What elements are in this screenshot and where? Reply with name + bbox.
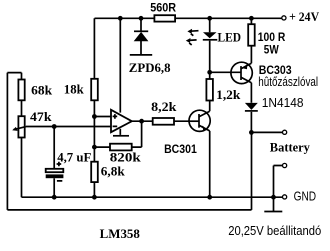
svg-text:1N4148: 1N4148 — [262, 95, 304, 110]
svg-text:6,8k: 6,8k — [101, 163, 126, 178]
svg-text:20,25V beállitandó: 20,25V beállitandó — [228, 223, 321, 238]
svg-text:1,2k: 1,2k — [216, 87, 241, 102]
svg-text:8,2k: 8,2k — [151, 99, 177, 114]
svg-text:ZPD6,8: ZPD6,8 — [129, 60, 171, 75]
svg-text:LM358: LM358 — [100, 226, 141, 241]
svg-text:820k: 820k — [110, 150, 142, 165]
svg-text:18k: 18k — [64, 82, 85, 97]
svg-text:68k: 68k — [31, 82, 53, 97]
svg-text:560R: 560R — [150, 0, 176, 14]
svg-text:5W: 5W — [264, 43, 279, 57]
svg-text:47k: 47k — [30, 109, 52, 124]
svg-text:BC301: BC301 — [164, 142, 197, 156]
svg-text:4,7 uF: 4,7 uF — [57, 149, 91, 164]
svg-text:+ 24V: + 24V — [289, 9, 320, 24]
svg-text:LED: LED — [218, 30, 242, 45]
svg-text:Battery: Battery — [270, 140, 311, 155]
svg-text:GND: GND — [294, 189, 317, 204]
svg-text:hûtőzászlóval: hûtőzászlóval — [258, 74, 318, 89]
